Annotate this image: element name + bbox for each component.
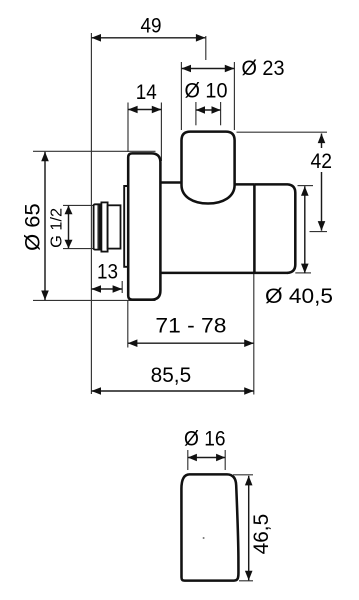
- dimension 13 line: [91, 288, 122, 290]
- dimension Ø10 line: [196, 109, 221, 111]
- svg-text:46,5: 46,5: [250, 514, 273, 555]
- extension line right shared 71-78 / 85,5: [253, 273, 255, 395]
- thread section: [94, 204, 100, 249]
- dimension 71-78 line: [128, 342, 254, 344]
- dimension 46,5 line: [248, 476, 250, 581]
- body top line left segment: [160, 181, 182, 184]
- svg-text:14: 14: [136, 81, 157, 104]
- svg-text:13: 13: [97, 260, 118, 283]
- extension lines 46,5: [233, 474, 253, 476]
- dimension Ø10 arrows: [196, 106, 221, 114]
- dimension Ø40,5 line: [304, 186, 306, 273]
- dimension 49 arrows: [91, 34, 205, 42]
- extension line 71-78 left: [127, 301, 129, 348]
- extension lines 14: [127, 103, 129, 153]
- extension lines Ø40,5: [298, 185, 314, 187]
- dimension Ø40,5 arrows: [301, 186, 309, 273]
- dimension 14 arrows: [128, 106, 161, 114]
- extension lines Ø16: [187, 450, 189, 470]
- extension line 13 right: [121, 281, 123, 293]
- extension line cap top to 42: [237, 131, 328, 133]
- dimension Ø65 arrows: [41, 152, 49, 300]
- dimension 46,5 arrows: [245, 476, 253, 581]
- dimension 71-78 arrows: [128, 339, 254, 347]
- dimension 42 arrows: [318, 134, 326, 231]
- dimension 85,5 line: [91, 390, 253, 392]
- step cylinder behind rosette: [124, 186, 128, 267]
- dimension 85,5 arrows: [91, 387, 253, 395]
- svg-text:71 - 78: 71 - 78: [155, 315, 226, 338]
- axis tick 42 bottom: [310, 231, 328, 233]
- thread collar: [101, 202, 107, 251]
- body top line right segment: [234, 183, 254, 186]
- nozzle speck: [203, 537, 205, 539]
- dimension G 1/2 line: [68, 206, 70, 249]
- dimension 13 arrows: [91, 285, 122, 293]
- extension lines Ø10: [195, 102, 197, 125]
- dimension 42 lower segment: [321, 172, 323, 231]
- right cylinder outline: [254, 184, 295, 273]
- valve cap outline: [182, 132, 235, 204]
- dimension Ø16 arrows: [188, 454, 225, 462]
- dimension Ø16 line: [188, 457, 225, 459]
- dimension 14 line: [128, 109, 161, 111]
- svg-text:G 1/2: G 1/2: [49, 208, 66, 248]
- svg-text:Ø 23: Ø 23: [242, 57, 285, 80]
- svg-text:Ø 40,5: Ø 40,5: [265, 285, 333, 308]
- svg-text:49: 49: [141, 14, 162, 37]
- rosette outline: [128, 153, 160, 299]
- extension lines Ø65: [33, 150, 156, 152]
- dimension 49 line: [91, 37, 205, 39]
- body bottom line: [160, 272, 288, 275]
- dimension Ø65 line: [44, 152, 46, 300]
- dimension G 1/2 arrows: [65, 206, 73, 249]
- svg-text:42: 42: [310, 150, 332, 173]
- thread inner line: [97, 204, 99, 249]
- extension line wall-plane (49 / 85,5 left): [90, 33, 92, 394]
- dimension 42 upper segment: [321, 134, 323, 149]
- dimension Ø23 arrows: [181, 65, 234, 73]
- extension lines G 1/2: [63, 204, 93, 206]
- dimension Ø23 line: [181, 68, 234, 70]
- extension lines cap diameter (Ø23): [180, 62, 182, 130]
- nozzle outline: [181, 474, 238, 580]
- svg-text:85,5: 85,5: [151, 364, 192, 387]
- svg-text:Ø 16: Ø 16: [184, 428, 226, 451]
- body divider line: [253, 184, 256, 273]
- extension line pipe axis (49 right): [205, 36, 207, 60]
- svg-text:Ø 65: Ø 65: [22, 203, 45, 251]
- thread nipple: [108, 205, 121, 248]
- svg-text:Ø 10: Ø 10: [185, 79, 228, 102]
